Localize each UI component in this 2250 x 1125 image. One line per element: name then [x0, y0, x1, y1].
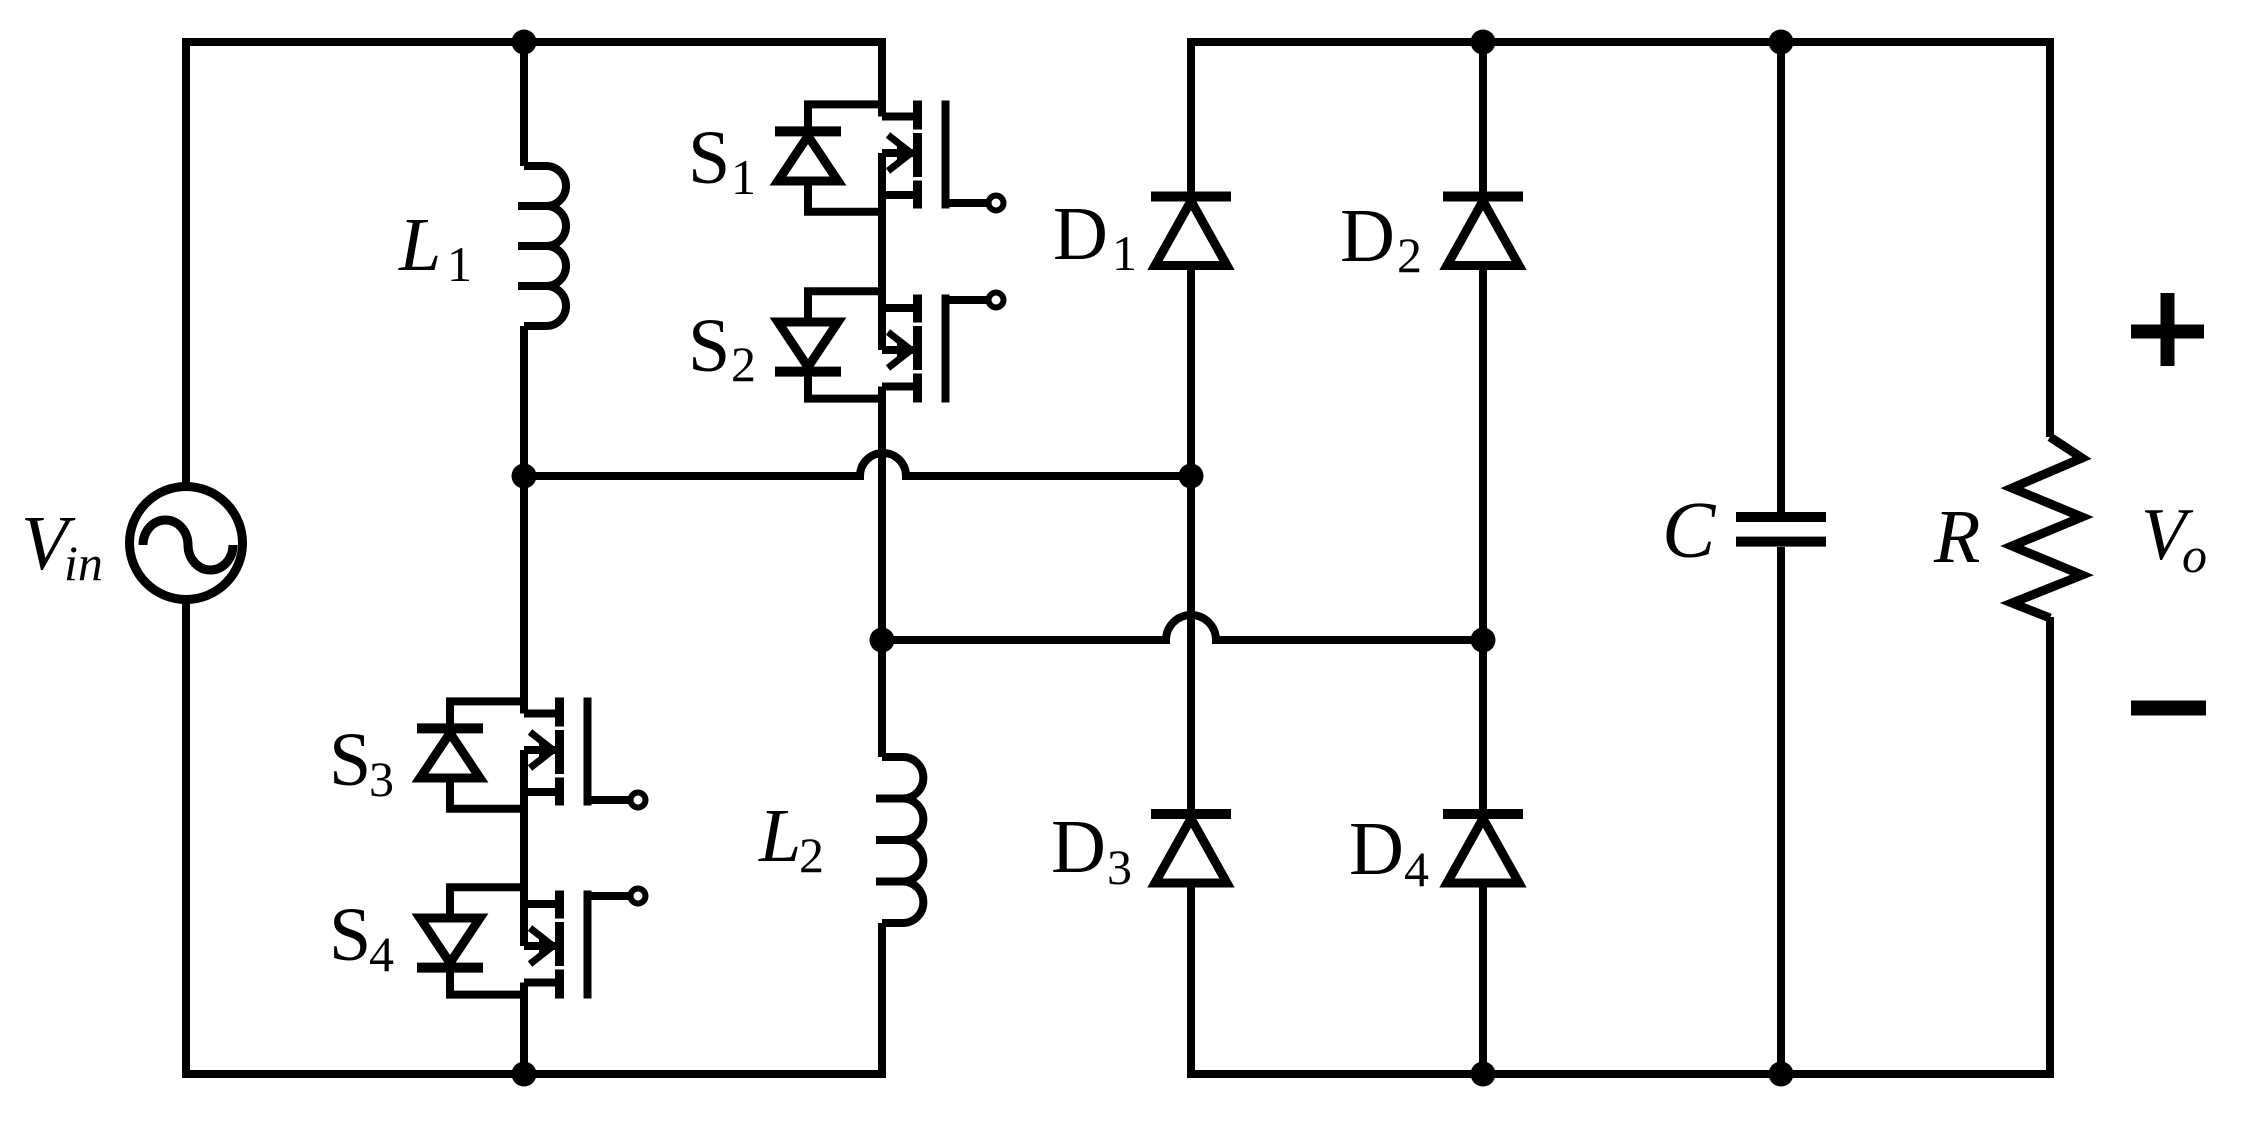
svg-text:4: 4 — [369, 926, 394, 982]
AC source Vin circle — [130, 487, 243, 600]
node: top rail / D2 — [1471, 30, 1496, 55]
wire: D1 upper lead + top-right rail + R top lead — [1191, 42, 2050, 437]
switch S4 (MOSFET with body diode) — [417, 887, 646, 998]
AC source Vin sine wave — [143, 520, 233, 570]
diode D4 — [1443, 814, 1523, 883]
wire: mid wire 1 with hop over S column — [524, 453, 1191, 476]
node: mid wire 2 / D2-D4 — [1471, 628, 1496, 653]
node: mid wire 1 / L1-S3 — [512, 464, 537, 489]
svg-text:3: 3 — [1107, 839, 1132, 895]
node: mid wire 2 / S2-L2 — [870, 628, 895, 653]
node: top rail / C — [1769, 30, 1794, 55]
svg-text:S: S — [329, 718, 371, 802]
wire: S3-S4 column segments — [520, 476, 528, 1074]
svg-text:o: o — [2182, 527, 2207, 583]
wire: L1 top lead — [520, 42, 528, 166]
wire: Vin bottom lead + bottom-left rail + L2 bottom lead — [186, 603, 882, 1074]
diode D2 — [1443, 197, 1523, 266]
wire: Vin top lead + top-left rail + S1 drain lead — [186, 42, 886, 483]
svg-text:R: R — [1933, 495, 1980, 579]
svg-text:2: 2 — [1397, 227, 1422, 283]
svg-text:L: L — [398, 203, 441, 287]
wire: S1-S2 column segments — [878, 153, 886, 640]
switch S2 (MOSFET with body diode) — [775, 291, 1004, 402]
node: bottom rail / C — [1769, 1062, 1794, 1087]
svg-text:3: 3 — [369, 751, 394, 807]
minus sign — [2131, 701, 2206, 716]
svg-text:S: S — [688, 304, 730, 388]
wire: C top lead — [1777, 42, 1785, 512]
svg-text:4: 4 — [1404, 841, 1429, 897]
wire: L1 bottom lead — [520, 326, 528, 476]
svg-text:2: 2 — [731, 336, 756, 392]
svg-text:D: D — [1340, 194, 1395, 278]
wire: D4 lower lead — [1479, 887, 1487, 1074]
wire: mid wire 2 with hop over D column — [882, 615, 1483, 640]
switch S1 (MOSFET with body diode) — [775, 101, 1004, 212]
wire: D3 lower lead + bottom-right rail + R bottom lead — [1191, 617, 2050, 1074]
svg-text:in: in — [64, 535, 103, 591]
svg-text:1: 1 — [1112, 225, 1137, 281]
inductor L2 — [876, 757, 923, 923]
switch S3 (MOSFET with body diode) — [417, 698, 646, 809]
svg-text:D: D — [1051, 805, 1106, 889]
svg-text:1: 1 — [731, 149, 756, 205]
junction node dots — [512, 30, 1794, 1087]
wire: C bottom lead — [1777, 547, 1785, 1074]
svg-text:S: S — [688, 116, 730, 200]
resistor R zigzag — [2012, 437, 2082, 618]
wire: D2 upper lead — [1479, 42, 1487, 194]
node: bottom rail / S4 — [512, 1062, 537, 1087]
diode D3 — [1151, 814, 1231, 883]
node: bottom rail / D4 — [1471, 1062, 1496, 1087]
svg-text:1: 1 — [447, 236, 472, 292]
node: top rail / L1 — [512, 30, 537, 55]
plus sign — [2131, 293, 2204, 366]
node: mid wire 1 / D1 — [1179, 464, 1204, 489]
capacitor C plates — [1736, 517, 1826, 542]
wire: L2 top lead — [878, 640, 886, 757]
svg-text:L: L — [758, 794, 801, 878]
inductor L1 — [518, 166, 566, 326]
wire: D1 lower / D3 upper column segment — [1187, 265, 1195, 810]
svg-text:2: 2 — [799, 827, 824, 883]
wire: D2 lower / D4 upper column segment — [1479, 265, 1487, 814]
diode D1 — [1151, 197, 1231, 266]
svg-text:D: D — [1349, 807, 1404, 891]
svg-text:S: S — [329, 893, 371, 977]
svg-text:C: C — [1662, 487, 1717, 575]
svg-text:D: D — [1053, 192, 1108, 276]
